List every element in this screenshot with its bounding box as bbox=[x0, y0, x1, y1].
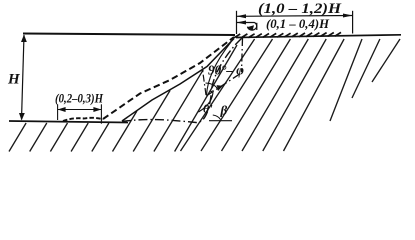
hatch line 1 bbox=[9, 123, 26, 152]
svg-text:(0,2–0,3)H: (0,2–0,3)H bbox=[55, 92, 104, 106]
hook arrowhead bbox=[247, 25, 254, 30]
thin line from vertex to crest bbox=[207, 42, 232, 96]
dashes strip on top surface (removed layer) bbox=[234, 32, 341, 37]
left arrow of lower dim bbox=[237, 21, 247, 25]
bottom ground line (left) bbox=[9, 121, 128, 123]
hatch line 16 bbox=[330, 39, 362, 121]
arc of angle 90-phi with arrow bbox=[206, 83, 219, 91]
top ground surface line (right) bbox=[236, 35, 401, 38]
dim line bbox=[237, 15, 353, 18]
solid slope face bbox=[122, 39, 234, 122]
hatch line 4 bbox=[71, 123, 88, 152]
vertical dash-dot below exit point bbox=[242, 38, 243, 72]
right arrow bbox=[93, 107, 101, 112]
hatch line 9 bbox=[175, 45, 237, 152]
arrowhead of angle arc bbox=[215, 83, 223, 91]
left tick bbox=[57, 104, 59, 120]
right arrow of top dim bbox=[343, 14, 353, 18]
H dim arrow down bbox=[19, 113, 25, 121]
svg-text:(0,1 – 0,4)H: (0,1 – 0,4)H bbox=[266, 16, 330, 31]
svg-text:θ': θ' bbox=[203, 102, 213, 116]
svg-text:β: β bbox=[220, 103, 228, 118]
hatch line 14 bbox=[263, 39, 326, 151]
beta angle arc bbox=[213, 115, 221, 120]
horizontal line for beta angle bbox=[209, 120, 232, 122]
left crest reference line bbox=[23, 34, 235, 36]
svg-text:(1,0 – 1,2)H: (1,0 – 1,2)H bbox=[258, 1, 342, 17]
svg-text:90°– φ: 90°– φ bbox=[208, 63, 244, 78]
hatch line 6 bbox=[113, 111, 137, 152]
top dimension (1,0-1,2)H bbox=[237, 11, 353, 34]
right tick bbox=[100, 104, 102, 123]
dashed berm mounds at toe bbox=[63, 118, 103, 121]
hatch line 3 bbox=[50, 123, 67, 152]
hook curve down bbox=[248, 22, 257, 30]
hatching of soil mass bbox=[9, 39, 400, 152]
left tick bbox=[236, 11, 238, 34]
hatch line 15 bbox=[284, 39, 345, 151]
hatch line 7 bbox=[133, 90, 170, 151]
hatch line 10 bbox=[181, 39, 255, 151]
arc of angle theta bbox=[199, 90, 214, 112]
H dimension vertical line with arrows bbox=[22, 35, 25, 120]
hatch line 12 bbox=[222, 39, 291, 151]
hatch line 5 bbox=[92, 123, 109, 152]
H dim arrow up bbox=[21, 35, 27, 43]
hatch line 13 bbox=[242, 39, 308, 151]
dashed new profile line bbox=[103, 37, 234, 119]
left arrow of top dim bbox=[237, 14, 247, 18]
lower dimension (0,1-0,4)H line bbox=[237, 22, 257, 30]
hatch line 11 bbox=[201, 39, 273, 151]
hatch line 18 bbox=[372, 39, 400, 82]
dim line bbox=[58, 109, 102, 111]
hatch line 2 bbox=[30, 123, 47, 152]
right stub bbox=[256, 23, 258, 30]
svg-text:H: H bbox=[7, 72, 21, 88]
left arrow bbox=[58, 107, 66, 112]
hatch line 8 bbox=[154, 70, 203, 152]
inclined dash-dot line from vertex (normal direction) bbox=[207, 73, 242, 96]
dash-dot slip surface curve bbox=[122, 38, 243, 123]
short vertical dash-dot at vertex bbox=[202, 66, 206, 95]
right tick bbox=[352, 11, 354, 34]
hatch line 17 bbox=[352, 39, 380, 98]
